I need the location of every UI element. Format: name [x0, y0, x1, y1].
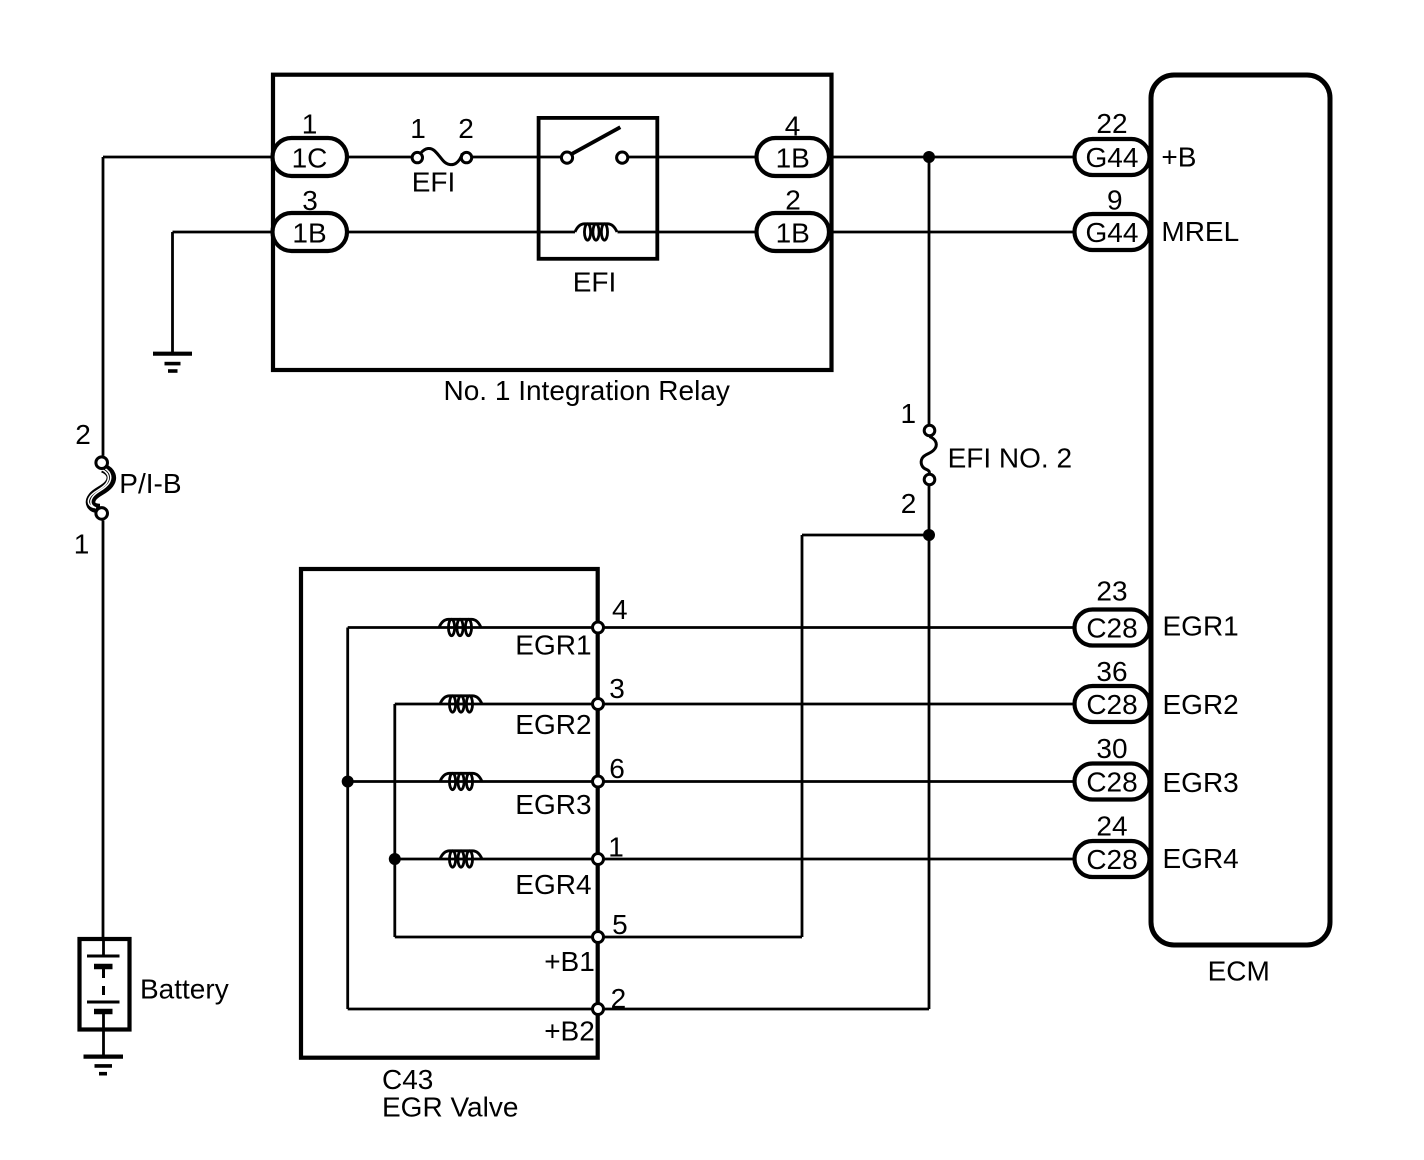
wire +B1 row	[395, 936, 802, 939]
svg-text:1B: 1B	[776, 218, 810, 249]
svg-text:4: 4	[612, 594, 628, 625]
svg-text:2: 2	[75, 419, 91, 450]
svg-text:P/I-B: P/I-B	[119, 468, 181, 499]
wire EGR2 to ECM	[598, 703, 1076, 706]
coil EGR4	[440, 851, 482, 867]
svg-text:Battery: Battery	[140, 973, 229, 1004]
svg-text:30: 30	[1096, 733, 1127, 764]
terminal 6 EGR3	[593, 776, 604, 787]
coil EGR2	[440, 696, 482, 712]
connector C28 pin 30	[1075, 733, 1150, 800]
relay EFI inner box	[539, 118, 658, 259]
svg-text:EFI NO. 2: EFI NO. 2	[948, 443, 1072, 474]
wire relay coil to pin2 1B	[618, 231, 759, 234]
terminal 5 +B1	[593, 932, 604, 943]
svg-text:1: 1	[410, 113, 426, 144]
svg-text:G44: G44	[1086, 217, 1139, 248]
wire battery feed vertical lower	[102, 521, 105, 942]
ECM box	[1151, 75, 1330, 945]
svg-text:1: 1	[608, 832, 624, 863]
wire battery feed vertical upper	[102, 157, 105, 456]
EGR valve box C43	[301, 569, 598, 1058]
wire node down to fuse EFI NO.2	[928, 157, 931, 425]
wire +B1 branch vertical	[801, 535, 804, 937]
connector 1B pin 2	[757, 185, 830, 252]
terminal 2 +B2	[593, 1004, 604, 1015]
svg-text:EGR1: EGR1	[1163, 610, 1239, 641]
svg-text:1: 1	[74, 528, 90, 559]
svg-text:EGR3: EGR3	[515, 789, 591, 820]
terminal 1 EGR4	[593, 854, 604, 865]
svg-text:2: 2	[611, 983, 627, 1014]
wire ground drop from pin3	[171, 232, 174, 352]
svg-text:4: 4	[785, 111, 801, 142]
wire node to +B1 branch	[802, 534, 929, 537]
svg-text:EGR Valve: EGR Valve	[382, 1092, 518, 1123]
svg-text:C28: C28	[1086, 844, 1137, 875]
fuse EFI NO. 2	[901, 398, 1073, 519]
wire fuse EFI to relay switch	[473, 156, 562, 159]
svg-text:22: 22	[1096, 108, 1127, 139]
svg-text:1C: 1C	[292, 143, 328, 174]
connector 1C pin 1	[273, 109, 348, 177]
wire EGR3 to ECM	[598, 780, 1076, 783]
svg-text:EFI: EFI	[412, 167, 456, 198]
wire EGR4 inner	[395, 858, 598, 861]
svg-text:C43: C43	[382, 1064, 433, 1095]
connector 1B pin 3	[273, 185, 348, 251]
wire pin4 1B to ECM +B	[828, 156, 1076, 159]
node below EFI NO.2	[923, 529, 935, 541]
svg-text:C28: C28	[1086, 613, 1137, 644]
wire 1B pin3 to relay coil	[345, 231, 575, 234]
svg-text:+B1: +B1	[544, 946, 595, 977]
wire EGR1 to ECM	[598, 626, 1076, 629]
wire 1C to fuse EFI	[345, 156, 412, 159]
coil EGR3	[440, 773, 482, 789]
svg-text:1B: 1B	[292, 218, 326, 249]
connector C28 pin 36	[1075, 656, 1150, 722]
svg-text:EGR4: EGR4	[515, 869, 591, 900]
connector 1B pin 4	[757, 111, 830, 177]
svg-text:EGR1: EGR1	[515, 630, 591, 661]
connector G44 pin 9	[1075, 185, 1150, 250]
ground (battery)	[84, 1057, 124, 1074]
wire EGR1 inner	[348, 626, 598, 629]
wire EGR4 to ECM	[598, 858, 1076, 861]
svg-text:EGR3: EGR3	[1163, 767, 1239, 798]
wire 1C row left	[103, 156, 276, 159]
svg-text:2: 2	[785, 185, 801, 216]
fuse EFI	[410, 113, 474, 198]
svg-text:1: 1	[302, 109, 318, 140]
svg-text:C28: C28	[1086, 767, 1137, 798]
terminal 3 EGR2	[593, 699, 604, 710]
svg-text:+B2: +B2	[544, 1016, 595, 1047]
wire bus1 vertical	[346, 628, 349, 1010]
wire EGR2 inner	[395, 703, 598, 706]
ground (relay)	[153, 354, 192, 371]
svg-text:No. 1 Integration Relay: No. 1 Integration Relay	[444, 375, 730, 406]
svg-text:C28: C28	[1086, 689, 1137, 720]
connector C28 pin 23	[1075, 575, 1150, 645]
svg-text:24: 24	[1096, 810, 1127, 841]
relay coil	[575, 224, 617, 240]
svg-text:G44: G44	[1086, 142, 1139, 173]
connector G44 pin 22	[1075, 108, 1150, 175]
wire +B2 row	[348, 1008, 929, 1011]
svg-text:MREL: MREL	[1161, 216, 1239, 247]
connector C28 pin 24	[1075, 810, 1150, 877]
svg-text:3: 3	[302, 185, 318, 216]
svg-text:ECM: ECM	[1208, 956, 1270, 987]
svg-text:36: 36	[1096, 656, 1127, 687]
battery	[80, 939, 229, 1055]
wire 1B pin3 row left	[173, 231, 277, 234]
svg-text:1B: 1B	[776, 143, 810, 174]
svg-text:+B: +B	[1161, 142, 1196, 173]
svg-text:3: 3	[609, 673, 625, 704]
svg-text:6: 6	[609, 753, 625, 784]
svg-text:23: 23	[1096, 575, 1127, 606]
node +B branch	[923, 151, 935, 163]
wire relay switch to pin4 1B	[628, 156, 758, 159]
svg-text:1: 1	[901, 398, 917, 429]
fusible link P/I-B	[74, 419, 182, 560]
svg-text:2: 2	[901, 488, 917, 519]
svg-text:EGR4: EGR4	[1163, 843, 1239, 874]
wire bus2 vertical	[393, 704, 396, 937]
wire fuse EFI NO.2 to node 2	[928, 486, 931, 1009]
node bus2 EGR4	[389, 853, 401, 865]
wire EGR3 inner	[348, 780, 598, 783]
relay box No.1 Integration Relay	[273, 75, 832, 370]
svg-text:EFI: EFI	[573, 267, 617, 298]
node bus1 EGR3	[342, 776, 354, 788]
relay switch contacts	[561, 127, 627, 163]
svg-text:2: 2	[458, 113, 474, 144]
coil EGR1	[439, 619, 481, 635]
svg-text:EGR2: EGR2	[515, 709, 591, 740]
wire pin2 1B to ECM MREL	[828, 231, 1076, 234]
svg-text:9: 9	[1107, 185, 1123, 216]
svg-text:EGR2: EGR2	[1163, 689, 1239, 720]
terminal 4 EGR1	[593, 622, 604, 633]
svg-text:5: 5	[612, 909, 628, 940]
